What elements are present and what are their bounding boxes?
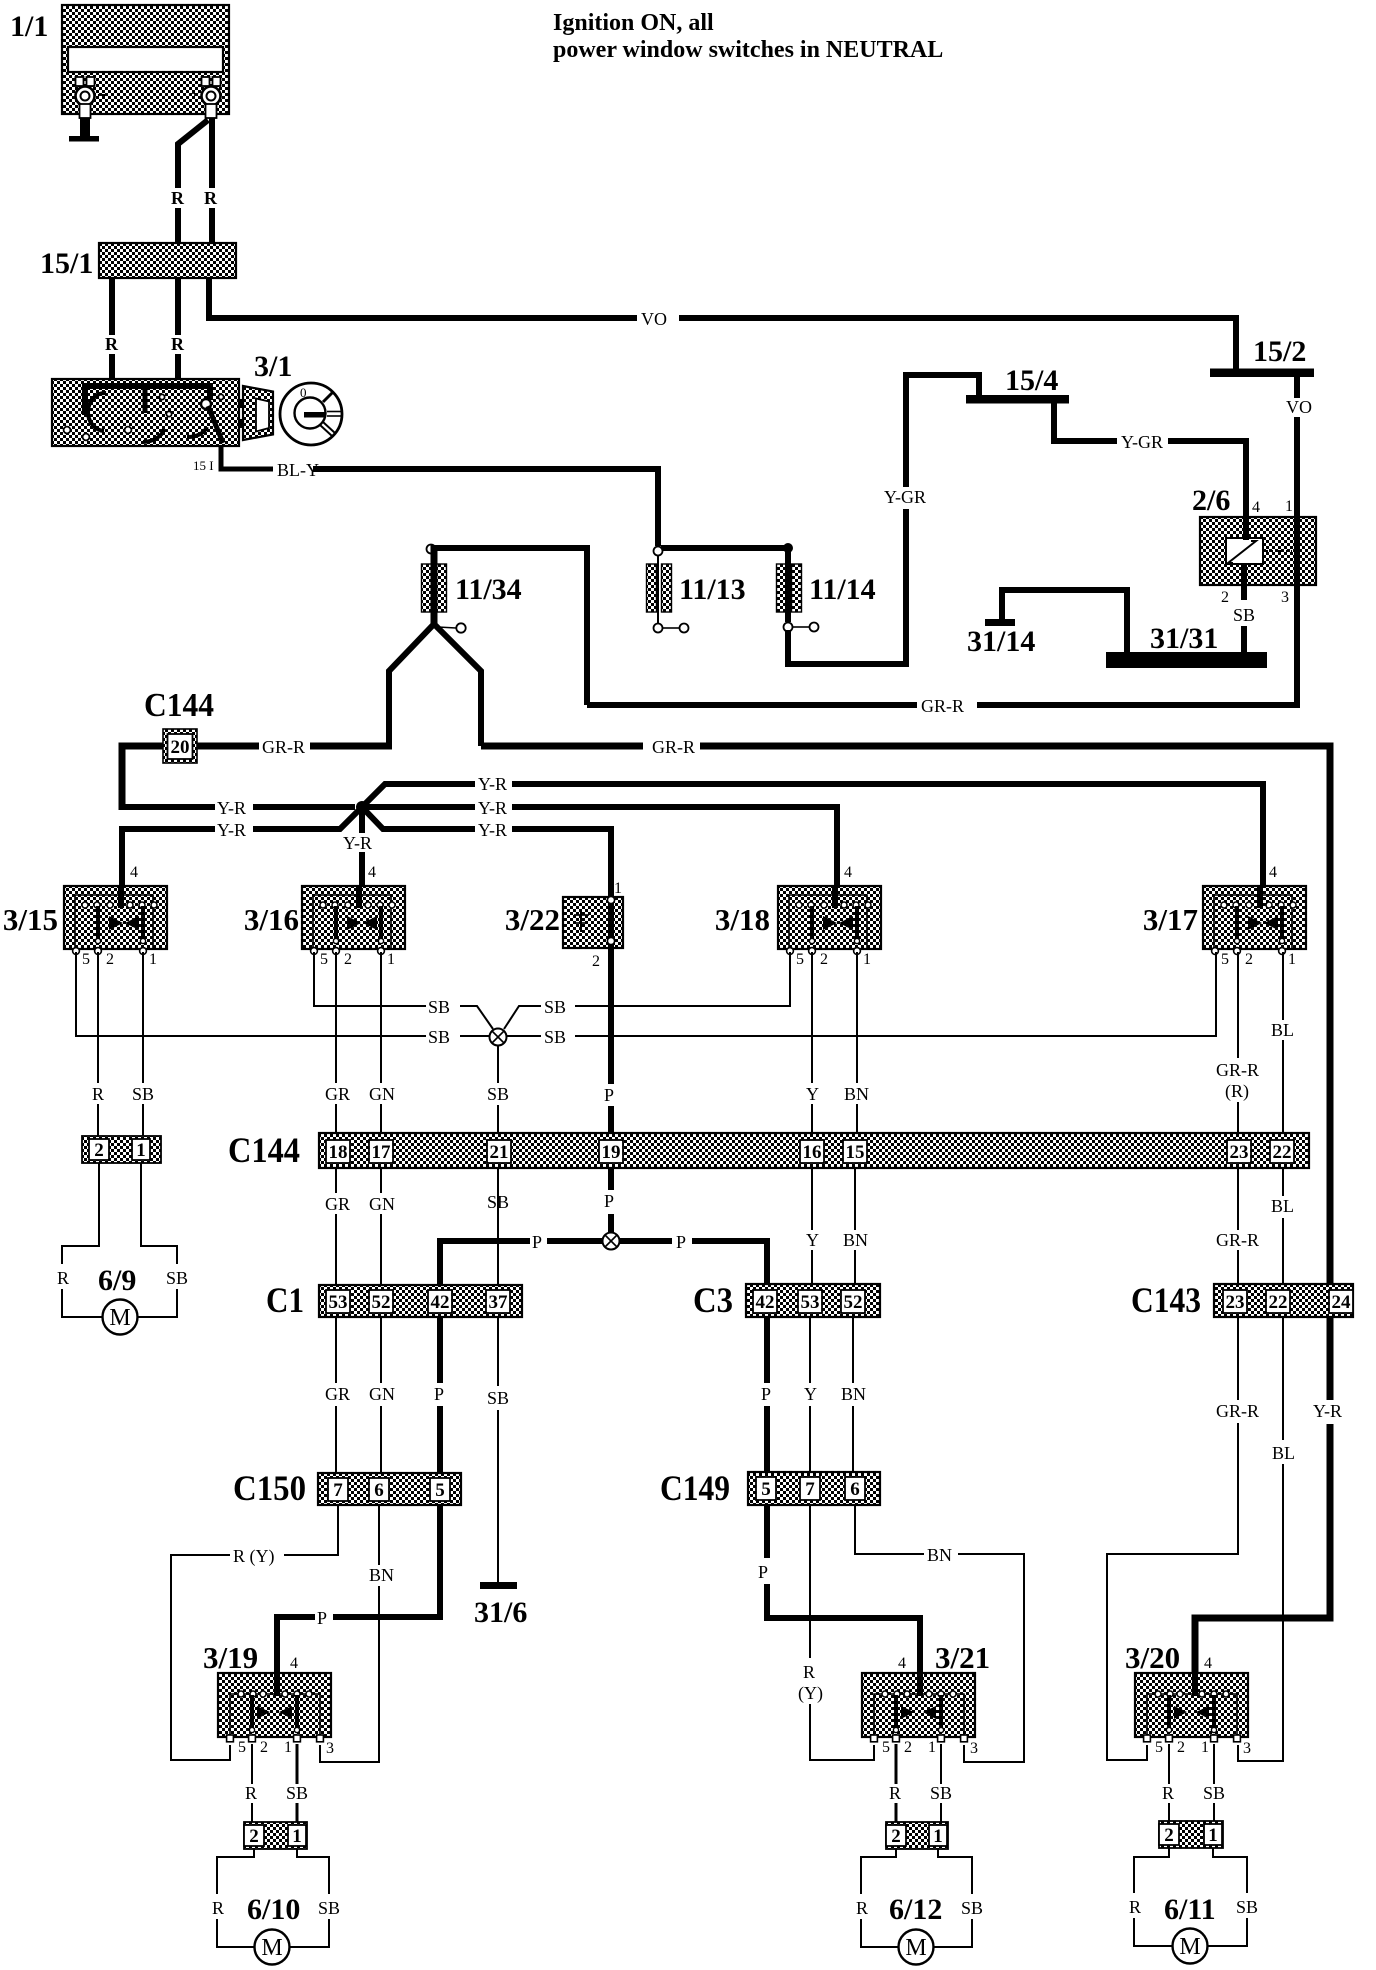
wire R 3/19 pin2 to connector 6/10 [251,1744,253,1822]
svg-text:R: R [803,1662,815,1682]
svg-text:GR-R: GR-R [652,737,695,757]
svg-text:31/31: 31/31 [1150,622,1218,655]
switch 3/21 [862,1640,990,1742]
wire GN C1 pin52 to C150 pin6 [380,1317,382,1473]
wire GR C1 pin53 to C150 pin7 [335,1317,337,1473]
svg-text:4: 4 [290,1655,298,1672]
svg-text:11/34: 11/34 [455,573,522,606]
svg-text:R: R [171,334,185,354]
svg-text:GR: GR [325,1084,350,1104]
svg-text:4: 4 [1252,499,1260,516]
svg-text:42: 42 [431,1292,450,1313]
svg-text:R: R [245,1783,257,1803]
wire P C150 pin5 to 3/19 pin4 [277,1505,440,1673]
svg-text:3: 3 [326,1740,334,1757]
svg-text:R: R [92,1084,104,1104]
svg-text:22: 22 [1273,1142,1292,1163]
svg-text:Y: Y [806,1230,819,1250]
wire Y-GR 15/4 to relay 2/6 pin 4 [1054,403,1246,517]
wire SB 3/21 pin1 to connector 6/12 [940,1744,942,1822]
svg-text:1: 1 [387,951,395,968]
svg-text:C149: C149 [660,1468,730,1508]
svg-text:P: P [317,1608,327,1628]
connector C144 [228,1130,1309,1170]
wire BL C144 pin22 to C143 pin22 [1282,1168,1284,1284]
svg-text:5: 5 [82,951,90,968]
svg-text:0: 0 [300,385,307,400]
svg-text:P: P [434,1384,444,1404]
svg-text:(Y): (Y) [798,1683,823,1704]
svg-text:6/10: 6/10 [247,1893,300,1926]
svg-text:R: R [1129,1897,1141,1917]
svg-text:P: P [604,1085,614,1105]
wire connector pin2 to motor 6/11 left [1134,1848,1173,1946]
wire BL-Y ignition to fuses [221,446,658,546]
svg-text:BL-Y: BL-Y [277,460,319,480]
svg-text:5: 5 [1221,951,1229,968]
wire GR C144 pin18 to C1 pin53 [335,1168,337,1285]
wire SB 3/19 pin1 to connector 6/10 [296,1744,299,1822]
label GR-R (R) [1216,1060,1259,1102]
bus bar 15/4 [966,364,1069,404]
svg-text:2: 2 [592,953,600,970]
svg-text:BL: BL [1272,1443,1295,1463]
fuse box 15/1 [40,243,236,280]
wire BL 3/17 pin1 to C144 pin 22 [1282,952,1284,1140]
connector at motor 6/11 [1159,1821,1223,1848]
wire SB 3/20 pin1 to connector 6/11 [1213,1744,1215,1822]
motor 6/10 [247,1893,300,1965]
svg-text:53: 53 [329,1292,348,1313]
wire P C144 pin19 down to P splice [608,1168,614,1233]
svg-text:BN: BN [841,1384,866,1404]
wire GR-R relay pin 3 to fuse 11/34 feed [587,585,1297,705]
svg-text:GR: GR [325,1194,350,1214]
pin labels 5 2 1 3 of 3/20 [1155,1739,1251,1757]
wire Y-R star to 3/17 pin 4 (upper) [360,784,1263,886]
connector C143 [1131,1280,1353,1320]
svg-text:21: 21 [490,1142,509,1163]
svg-text:4: 4 [898,1655,906,1672]
svg-text:SB: SB [318,1898,340,1918]
switch 3/18 [715,886,881,954]
P splice junction symbol [603,1233,620,1250]
svg-text:BL: BL [1271,1196,1294,1216]
star junction dot [356,801,368,813]
svg-text:5: 5 [435,1480,445,1501]
wire Y-R star down to 3/16 pin 4 [359,807,365,886]
pin labels 5 2 1 3 of 3/19 [238,1739,334,1757]
svg-text:2: 2 [1221,589,1229,606]
svg-text:VO: VO [641,309,667,329]
wire BN C149 pin6 to 3/21 pin3 [855,1505,1024,1762]
wire C144 pin20 left to Y-R bus [122,746,163,810]
svg-text:4: 4 [1204,1655,1212,1672]
wire battery to 15/1 right R [209,118,215,243]
svg-text:C144: C144 [144,687,214,724]
connector C144 pin 20 [163,729,197,763]
svg-text:2: 2 [1164,1825,1174,1846]
wire 15/1 to ignition mid R [175,278,181,380]
fuse 11/14 [777,548,876,632]
svg-text:4: 4 [844,864,852,881]
svg-text:2/6: 2/6 [1192,484,1230,517]
terminal circle 11/13 top [654,547,663,556]
svg-text:SB: SB [132,1084,154,1104]
pin labels 5 2 1 of 3/17 [1221,951,1296,968]
svg-text:22: 22 [1269,1292,1288,1313]
svg-text:R: R [212,1898,224,1918]
wire SB relay pin 2 to ground 31/31 [1241,626,1247,654]
wire GN C144 pin17 to C1 pin52 [380,1168,382,1285]
svg-text:SB: SB [428,997,450,1017]
svg-text:5: 5 [1155,1739,1163,1756]
svg-text:P: P [676,1232,686,1252]
svg-text:1: 1 [1288,951,1296,968]
svg-text:M: M [905,1935,926,1961]
relay 2/6 [1192,484,1316,585]
motor 6/9 [98,1264,138,1335]
wire P 3/22 to C144 pin 19 [608,948,614,1140]
svg-text:7: 7 [805,1479,815,1500]
svg-text:Ignition ON, all: Ignition ON, all [553,10,714,36]
svg-text:R: R [105,334,119,354]
wire P splice to C3 pin 42 [619,1241,767,1284]
svg-text:SB: SB [544,997,566,1017]
svg-text:4: 4 [368,864,376,881]
svg-text:Y-GR: Y-GR [884,487,926,507]
junction dot at 11/14 top [783,543,793,553]
svg-text:3: 3 [1243,1740,1251,1757]
svg-text:4: 4 [1269,864,1277,881]
wire connector pin1 to motor 6/11 right [1208,1848,1248,1946]
wire 11/34 top to GR-R line (via right corner) [434,548,587,705]
svg-text:15/1: 15/1 [40,247,93,280]
svg-text:GN: GN [369,1384,395,1404]
svg-text:VO: VO [1286,397,1312,417]
svg-text:3/22: 3/22 [505,902,560,937]
wire BN 3/18 pin1 to C144 pin 15 [856,952,858,1140]
connector C3 [693,1280,880,1320]
svg-text:2: 2 [1177,1739,1185,1756]
svg-text:15/2: 15/2 [1253,335,1306,368]
svg-text:3: 3 [1281,589,1289,606]
svg-text:2: 2 [904,1739,912,1756]
svg-text:Y-R: Y-R [478,774,507,794]
wire SB 3/15 pin5 to 3/17 pin5 (lower SB line) [76,952,1216,1036]
wire Y-R C143 pin24 to 3/20 pin4 [1195,1317,1330,1673]
svg-text:GR: GR [325,1384,350,1404]
connector at motor 6/12 [886,1822,948,1849]
svg-text:24: 24 [1332,1292,1352,1313]
svg-text:5: 5 [238,1739,246,1756]
svg-text:Y-R: Y-R [217,798,246,818]
svg-text:GN: GN [369,1084,395,1104]
svg-text:GR-R: GR-R [1216,1060,1259,1080]
svg-text:SB: SB [1236,1897,1258,1917]
wire BL C143 pin22 to 3/20 pin3 [1238,1317,1283,1761]
svg-text:SB: SB [487,1192,509,1212]
svg-text:31/6: 31/6 [474,1596,527,1629]
svg-text:Y-R: Y-R [343,833,372,853]
svg-text:M: M [261,1935,282,1961]
battery 1/1 [10,5,229,118]
svg-text:P: P [761,1384,771,1404]
wire BN C144 pin15 to C3 pin52 [854,1168,856,1284]
svg-text:2: 2 [1245,951,1253,968]
svg-text:BN: BN [844,1084,869,1104]
wire GR-R fork right leg to far right vertical [481,746,1330,1285]
svg-text:SB: SB [487,1084,509,1104]
svg-text:Y: Y [804,1384,817,1404]
svg-text:6/12: 6/12 [889,1893,942,1926]
switch 3/17 [1143,886,1306,954]
svg-text:6/11: 6/11 [1164,1893,1216,1926]
wire Y-R star to 3/15 pin 4 (lower left) [122,805,364,886]
svg-text:3/21: 3/21 [935,1640,990,1675]
wire P C1 pin42 to C150 pin5 [437,1317,443,1473]
svg-text:1: 1 [149,951,157,968]
svg-text:16: 16 [803,1142,822,1163]
ignition key dial [280,383,342,445]
ground bar 31/31 [1106,622,1267,668]
wire GR-R C144 pin20 to fork left leg [197,743,392,750]
svg-text:C150: C150 [233,1468,306,1508]
caption: Ignition ON, all power window switches in NEUTRAL [553,10,943,63]
svg-text:23: 23 [1226,1292,1245,1313]
fuse 11/34 [422,545,522,633]
svg-text:M: M [1179,1934,1200,1960]
svg-text:6: 6 [374,1480,384,1501]
wire Y 3/18 pin2 to C144 pin 16 [811,952,813,1140]
svg-text:SB: SB [487,1388,509,1408]
wire Y C144 pin16 to C3 pin53 [811,1168,813,1284]
svg-text:1: 1 [136,1140,146,1161]
wire GR-R C144 pin23 to C143 pin23 [1237,1168,1239,1284]
svg-text:52: 52 [844,1292,863,1313]
svg-text:2: 2 [820,951,828,968]
svg-text:SB: SB [544,1027,566,1047]
svg-text:BN: BN [369,1565,394,1585]
svg-text:R: R [204,188,218,208]
ground at battery negative [69,118,99,142]
svg-text:GR-R: GR-R [1216,1401,1259,1421]
svg-text:15/4: 15/4 [1005,364,1058,397]
svg-text:1: 1 [933,1826,943,1847]
ground 31/6 [474,1582,527,1629]
svg-text:R (Y): R (Y) [233,1546,275,1567]
svg-text:1/1: 1/1 [10,10,48,43]
svg-text:power window switches in NEUTR: power window switches in NEUTRAL [553,37,943,63]
wire connector pin1 to motor 6/10 right [290,1849,330,1947]
relay pin 2 [1221,564,1244,606]
svg-text:5: 5 [320,951,328,968]
svg-text:42: 42 [756,1292,775,1313]
wire Y-R star to 3/22 (lower right) [360,805,611,897]
motor 6/12 [889,1893,942,1965]
svg-text:P: P [758,1562,768,1582]
svg-text:C144: C144 [228,1130,300,1170]
wire Y-R bus left to star junction [119,804,355,810]
pin labels 5 2 1 of 3/18 [796,951,871,968]
svg-text:2: 2 [249,1826,259,1847]
svg-text:1: 1 [292,1826,302,1847]
svg-text:SB: SB [428,1027,450,1047]
svg-text:19: 19 [602,1142,621,1163]
svg-text:3: 3 [970,1740,978,1757]
connector C1 [266,1280,522,1320]
svg-text:GR-R: GR-R [1216,1230,1259,1250]
relay pin 4 [1246,499,1260,540]
relay pin 1 [1285,498,1297,585]
connector at motor 6/10 [244,1822,307,1849]
wire connector pin2 to motor 6/12 left [861,1849,899,1947]
svg-text:R: R [856,1898,868,1918]
svg-text:Y: Y [806,1084,819,1104]
switch 3/20 [1125,1640,1248,1742]
label R (Y) [798,1662,823,1704]
svg-text:SB: SB [961,1898,983,1918]
svg-text:R: R [889,1783,901,1803]
wire GR-R C143 pin23 to 3/20 pin5 [1107,1317,1238,1760]
svg-text:3/17: 3/17 [1143,902,1198,937]
svg-text:3/20: 3/20 [1125,1640,1180,1675]
svg-text:1: 1 [284,1739,292,1756]
svg-text:Y-R: Y-R [1313,1401,1342,1421]
wire P C149 pin5 to 3/21 pin4 [767,1505,920,1673]
svg-text:C143: C143 [1131,1280,1201,1320]
svg-text:2: 2 [344,951,352,968]
svg-text:M: M [109,1305,130,1331]
svg-text:P: P [604,1191,614,1211]
wire GR 3/16 pin2 to C144 pin 18 [335,952,337,1140]
wire fuse top bus to 11/14 [661,545,788,551]
svg-text:SB: SB [286,1783,308,1803]
svg-text:11/14: 11/14 [809,573,876,606]
svg-text:3/16: 3/16 [244,902,299,937]
svg-text:R: R [57,1268,69,1288]
svg-text:C1: C1 [266,1280,304,1320]
svg-text:18: 18 [329,1142,348,1163]
svg-text:1: 1 [928,1739,936,1756]
wire BN C3 pin52 to C149 pin6 [852,1317,854,1472]
svg-text:GR-R: GR-R [262,737,305,757]
wire connector pin1 to motor 6/9 right [138,1163,178,1317]
wire SB 3/15 pin1 to connector 6/9 [142,952,144,1136]
svg-text:2: 2 [94,1140,104,1161]
wire R (Y) C149 pin7 to 3/21 pin5 [810,1505,874,1760]
wire VO from 15/1 to bus 15/2 [209,278,1236,369]
svg-text:3/1: 3/1 [254,350,292,383]
wire Y-R star to 3/18 pin 4 [366,807,837,886]
wire fork under 11/34 right leg [434,624,481,746]
wire GR-R (R) 3/17 pin2 to C144 pin 23 [1237,952,1239,1140]
wire SB C144 pin21 to ground 31/6 [497,1168,499,1582]
svg-text:3/15: 3/15 [3,902,58,937]
motor 6/11 [1164,1893,1216,1964]
svg-text:1: 1 [863,951,871,968]
svg-text:BN: BN [843,1230,868,1250]
svg-text:2: 2 [106,951,114,968]
pin labels 5 2 1 3 of 3/21 [882,1739,978,1757]
wire 15/1 to ignition left R [109,278,115,380]
switch 3/19 [203,1640,331,1742]
svg-text:SB: SB [1203,1783,1225,1803]
svg-text:1: 1 [1201,1739,1209,1756]
svg-text:15 I: 15 I [193,458,214,473]
wire connector pin2 to motor 6/10 left [217,1849,255,1947]
wire R (Y) C150 pin7 to 3/19 pin5 [171,1505,338,1760]
svg-text:1: 1 [1285,498,1293,515]
wire SB 3/16 pin5 to junction and 3/18 pin5 (upper SB line) [314,952,790,1029]
fuse 11/13 [647,555,746,633]
svg-text:Y-R: Y-R [478,798,507,818]
svg-text:20: 20 [171,737,190,758]
switch 3/22 (sunroof) [505,896,623,948]
svg-text:(R): (R) [1225,1081,1249,1102]
svg-text:1: 1 [1208,1825,1218,1846]
bus bar 15/2 [1210,335,1314,377]
svg-text:17: 17 [372,1142,392,1163]
switch 3/16 [244,886,405,954]
ignition lock cylinder housing [238,386,273,440]
wire connector pin1 to motor 6/12 right [934,1849,973,1947]
svg-text:R: R [171,188,185,208]
svg-text:31/14: 31/14 [967,625,1035,658]
connector at motor 6/9 [82,1136,161,1163]
wire BN C150 pin6 to 3/19 pin3 [320,1505,379,1762]
connector C149 [660,1468,880,1508]
svg-text:C3: C3 [693,1280,733,1320]
svg-text:5: 5 [882,1739,890,1756]
svg-text:53: 53 [801,1292,820,1313]
svg-text:3/19: 3/19 [203,1640,258,1675]
pin labels 5 2 1 of 3/15 [82,951,157,968]
svg-text:6/9: 6/9 [98,1264,136,1297]
svg-text:5: 5 [761,1479,771,1500]
svg-text:2: 2 [260,1739,268,1756]
wire P splice to C1 pin 42 [440,1241,603,1285]
connector C150 [233,1468,461,1508]
svg-text:GR-R: GR-R [921,696,964,716]
wire R 3/15 pin2 to connector 6/9 [97,952,99,1136]
svg-text:2: 2 [891,1826,901,1847]
svg-text:3/18: 3/18 [715,902,770,937]
wire Y-GR 11/14 to bus 15/4 [788,375,979,664]
svg-text:BL: BL [1271,1020,1294,1040]
wire VO 15/2 to relay 2/6 pin 1 [1294,377,1300,517]
SB splice junction symbol [490,1029,507,1046]
ground 31/14 [967,590,1127,658]
wire fork under 11/34 left leg [389,624,434,746]
svg-text:GN: GN [369,1194,395,1214]
wire R 3/20 pin2 to connector 6/11 [1168,1744,1170,1822]
switch 3/15 [3,886,167,954]
svg-text:7: 7 [333,1480,343,1501]
svg-text:P: P [532,1232,542,1252]
wire battery to 15/1 left R [178,120,208,243]
svg-text:Y-R: Y-R [478,820,507,840]
wire SB junction down to C144 pin 21 [497,1045,499,1140]
svg-text:4: 4 [130,864,138,881]
wire connector pin2 to motor 6/9 left [62,1163,103,1317]
svg-text:BN: BN [927,1545,952,1565]
svg-text:SB: SB [930,1783,952,1803]
wire R 3/21 pin2 to connector 6/12 [895,1744,898,1822]
svg-text:R: R [1162,1783,1174,1803]
svg-text:SB: SB [166,1268,188,1288]
svg-text:52: 52 [372,1292,391,1313]
